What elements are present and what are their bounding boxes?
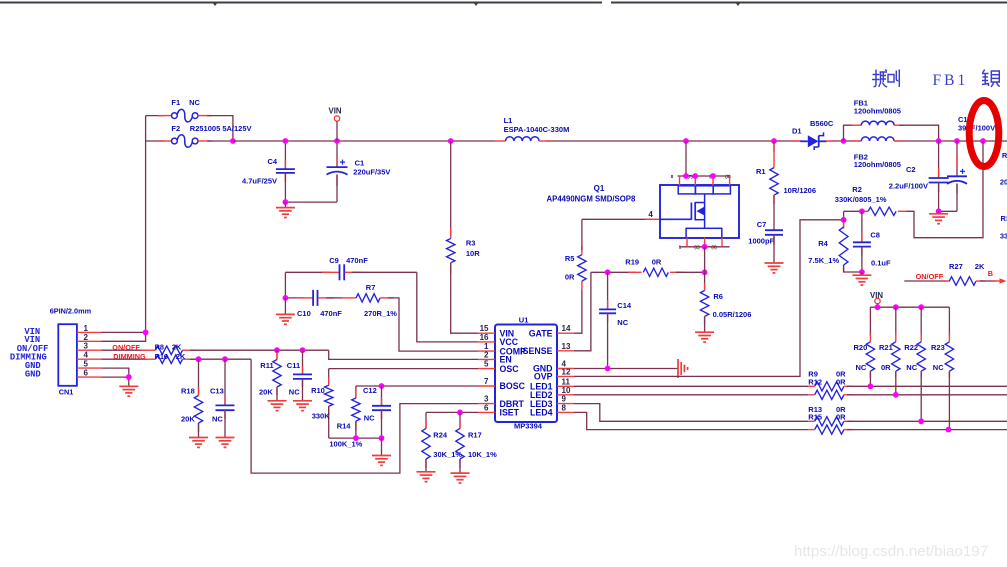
svg-text:100K_1%: 100K_1% [329, 440, 362, 449]
junction C8 top [859, 208, 865, 214]
wire R2 to R4/OVP [843, 211, 845, 220]
svg-text:F1: F1 [171, 98, 180, 107]
title char 2 [888, 70, 899, 88]
U1 left pin stubs [478, 332, 495, 334]
junction DIMMING/R18 [196, 356, 202, 362]
svg-text:6PIN/2.0mm: 6PIN/2.0mm [50, 307, 92, 316]
svg-text:C2: C2 [906, 165, 916, 174]
svg-text:ON/OFF: ON/OFF [916, 272, 944, 281]
capacitor C12 NC [381, 386, 383, 406]
svg-text:R18: R18 [181, 387, 195, 396]
resistor R12 0R [808, 394, 814, 396]
wire OVP net [574, 220, 844, 377]
wire R7 to U1 COMP pin1 [388, 298, 478, 351]
resistor R8 2K [101, 349, 147, 351]
ferrite bead FB2 120ohm/0805 [852, 140, 862, 142]
ground (C13) [216, 437, 235, 439]
resistor R9 0R [808, 385, 814, 387]
svg-text:BOSC: BOSC [500, 381, 526, 391]
svg-text:LED4: LED4 [530, 408, 553, 418]
svg-text:NC: NC [617, 318, 628, 327]
svg-text:NC: NC [856, 363, 867, 372]
svg-text:R14: R14 [337, 421, 352, 430]
svg-text:R19: R19 [625, 258, 639, 267]
resistor R20 NC [869, 307, 871, 335]
ground (output caps) [938, 211, 940, 214]
svg-text:MP3394: MP3394 [514, 422, 543, 431]
svg-text:2: 2 [84, 333, 89, 342]
svg-text:R23: R23 [931, 343, 945, 352]
svg-text:30K_1%: 30K_1% [433, 450, 462, 459]
svg-text:0R: 0R [652, 258, 662, 267]
ground (R17) [451, 472, 470, 474]
svg-text:NC: NC [189, 98, 200, 107]
svg-text:D1: D1 [792, 127, 802, 136]
svg-text:R11: R11 [260, 361, 273, 370]
ground (input filter) [284, 202, 286, 208]
svg-text:3: 3 [484, 395, 489, 404]
svg-text:120ohm/0805: 120ohm/0805 [854, 160, 901, 169]
svg-text:5: 5 [484, 360, 489, 369]
resistor R5 0R [581, 281, 583, 290]
svg-text:220uF/35V: 220uF/35V [353, 168, 390, 177]
transistor Q1 AP4490NGM SMD/SOP8 [660, 185, 739, 238]
junction C10/C9/ground [283, 295, 289, 301]
svg-text:R1: R1 [756, 167, 766, 176]
Q1 drain pad stubs [679, 176, 681, 186]
svg-text:7.5K_1%: 7.5K_1% [808, 256, 839, 265]
svg-text:C12: C12 [363, 386, 377, 395]
svg-text:R20: R20 [854, 343, 868, 352]
wire ON/OFF net to U1 EN [190, 349, 329, 351]
svg-text:NC: NC [906, 363, 917, 372]
svg-text:4: 4 [84, 351, 89, 360]
svg-text:R5: R5 [565, 254, 575, 263]
svg-text:C1: C1 [355, 159, 365, 168]
svg-text:AP4490NGM SMD/SOP8: AP4490NGM SMD/SOP8 [547, 195, 636, 204]
svg-text:NC: NC [933, 363, 944, 372]
red highlight ellipse (C15) [969, 101, 999, 167]
svg-text:L1: L1 [504, 116, 513, 125]
svg-text:0R: 0R [881, 363, 891, 372]
wire ISENSE to R19 [591, 271, 635, 273]
svg-text:R16: R16 [155, 352, 168, 361]
wire U1 GATE to R5 [574, 290, 582, 333]
svg-text:GND: GND [25, 370, 41, 380]
junction ISET/R17 [457, 410, 463, 416]
ground (R6) [695, 331, 714, 333]
svg-text:3: 3 [84, 342, 89, 351]
ground (R24) [417, 471, 436, 473]
svg-text:0R: 0R [836, 413, 846, 422]
resistor R22 NC [920, 307, 922, 335]
fuse F2 R251005 5A/125V [172, 138, 178, 144]
junction C2 bottom [936, 208, 942, 214]
capacitor C9 470nF [285, 271, 330, 273]
svg-text:10K_1%: 10K_1% [468, 450, 497, 459]
svg-text:470nF: 470nF [346, 256, 368, 265]
svg-text:1: 1 [84, 324, 89, 333]
svg-text:R3: R3 [1002, 151, 1007, 160]
junction FB output / C2 [936, 138, 942, 144]
svg-text:ESPA-1040C-330M: ESPA-1040C-330M [504, 125, 570, 134]
svg-text:270R_1%: 270R_1% [364, 309, 397, 318]
svg-text:https://blog.csdn.net/biao197: https://blog.csdn.net/biao197 [794, 543, 988, 560]
svg-text:6: 6 [84, 369, 89, 378]
resistor R2 330K/0805_1% [898, 210, 907, 212]
svg-text:2K: 2K [975, 262, 985, 271]
svg-text:OSC: OSC [500, 364, 520, 374]
svg-text:Q1: Q1 [594, 184, 605, 193]
svg-text:0.1uF: 0.1uF [871, 259, 891, 268]
wire C2/C15 bottom [939, 210, 957, 212]
capacitor C1 220uF/35V polarized [336, 141, 338, 167]
wire BOSC net [356, 385, 478, 387]
wire Q1 drain rail [685, 141, 687, 176]
junction DIMMING/C13 [222, 356, 228, 362]
svg-text:CN1: CN1 [59, 388, 74, 397]
svg-text:6: 6 [484, 403, 489, 412]
diode D1 B560C [791, 140, 802, 142]
svg-text:OVP: OVP [534, 372, 553, 382]
svg-text:C4: C4 [268, 157, 278, 166]
svg-text:330K/0805_1%: 330K/0805_1% [835, 195, 887, 204]
ground (CN1 pins 5/6) [119, 385, 138, 387]
junction CN1 pin1 / VIN riser [143, 330, 149, 336]
svg-text:2K: 2K [172, 343, 182, 352]
svg-text:0R: 0R [836, 377, 846, 386]
svg-text:U1: U1 [519, 316, 529, 325]
resistor R17 10K_1% [459, 412, 461, 428]
svg-text:8: 8 [671, 174, 674, 179]
wire ISET net [426, 411, 478, 413]
junction VIN stem [875, 304, 881, 310]
svg-text:C10: C10 [297, 309, 311, 318]
svg-text:R2: R2 [852, 185, 862, 194]
svg-text:14: 14 [562, 324, 571, 333]
svg-text:VIN: VIN [329, 107, 342, 116]
svg-text:ISET: ISET [500, 408, 520, 418]
junction Q1 source [702, 244, 708, 250]
resistor R7 270R_1% [342, 297, 356, 299]
svg-text:NC: NC [289, 387, 300, 396]
svg-text:C9: C9 [329, 256, 339, 265]
svg-text:R6: R6 [713, 292, 723, 301]
svg-text:R27: R27 [949, 262, 963, 271]
svg-text:B560C: B560C [810, 119, 834, 128]
junction ISENSE/C14 [605, 269, 611, 275]
svg-text:0R: 0R [565, 273, 575, 282]
ferrite bead FB1 120ohm/0805 [844, 125, 854, 141]
svg-text:FB1: FB1 [933, 72, 969, 89]
wire R10/R14/C12 bottom [329, 437, 382, 439]
svg-text:15: 15 [480, 324, 489, 333]
capacitor C8 0.1uF [861, 211, 863, 242]
junction GND/C14 [605, 366, 611, 372]
junction bus / Q1 drain [683, 138, 689, 144]
svg-text:R4: R4 [818, 239, 828, 248]
svg-text:R3: R3 [466, 239, 476, 248]
wire U1 GND row [574, 368, 678, 370]
svg-text:C13: C13 [210, 387, 224, 396]
ground (R10/R14/C12) [381, 438, 383, 455]
inductor L1 ESPA-1040C-330M [495, 140, 506, 142]
resistor R13 0R [808, 420, 814, 422]
title char 3 [982, 70, 1000, 88]
wire bus to F2 [146, 140, 165, 142]
svg-text:R7: R7 [366, 283, 376, 292]
connector CN1 6PIN/2.0mm [58, 324, 77, 386]
wire F2 to main bus [198, 140, 212, 142]
resistor R19 0R [628, 271, 642, 273]
junction R4/C8 bottom [859, 269, 865, 275]
svg-text:R10: R10 [311, 386, 325, 395]
U1 right pin stubs [557, 332, 574, 334]
resistor R27 2K [941, 280, 950, 282]
capacitor C11 NC [302, 350, 304, 374]
resistor R24 30K_1% [425, 412, 427, 428]
svg-text:8: 8 [562, 403, 567, 412]
wire C9 loop left [284, 272, 286, 298]
wire F1 branch right [198, 115, 212, 117]
svg-text:C11: C11 [287, 361, 300, 370]
svg-text:1000pF: 1000pF [748, 237, 774, 246]
wire CN1 pin6 to ground [101, 377, 128, 385]
capacitor C15 39uF/100V polarized [956, 141, 958, 176]
ground (R11) [268, 400, 287, 402]
svg-text:C7: C7 [757, 220, 767, 229]
capacitor C13 NC [224, 359, 226, 405]
svg-text:10R: 10R [466, 249, 480, 258]
svg-text:5: 5 [84, 360, 89, 369]
junction R14 bottom [353, 435, 359, 441]
ground (C11) [293, 400, 312, 402]
junction R21/LED2 [893, 392, 899, 398]
wire CN1 pin5 to ground [101, 368, 128, 377]
junction C12 bottom [379, 435, 385, 441]
junction R23/LED4 [946, 427, 952, 433]
wire OSC net [329, 368, 478, 370]
junction C15 output node [954, 138, 960, 144]
capacitor C7 1000pF [765, 229, 783, 231]
svg-text:120ohm/0805: 120ohm/0805 [854, 107, 901, 116]
junction BOSC/C12 [379, 383, 385, 389]
junctions Q1 drain rail [683, 173, 689, 179]
wire C4/C1 bottom [285, 201, 337, 203]
ground (C7) [765, 262, 784, 264]
resistor R4 7.5K_1% [843, 220, 845, 227]
resistor R18 20K [198, 359, 200, 395]
wire ON/OFF to R27 [904, 280, 947, 282]
wire LED4 row [574, 412, 808, 429]
capacitor C2 2.2uF/100V [938, 141, 940, 178]
svg-text:12: 12 [562, 367, 571, 376]
wire VIN bank bus [870, 306, 949, 308]
junction D1 cathode / FB1 branch [841, 138, 847, 144]
wire LED2 row [574, 394, 808, 396]
svg-text:10: 10 [562, 386, 571, 395]
wire R5 to Q1 gate pin4 [582, 218, 653, 220]
svg-text:NC: NC [364, 413, 375, 422]
svg-text:4: 4 [648, 210, 653, 219]
resistor R14 100K_1% [355, 386, 357, 398]
svg-text:33: 33 [1000, 232, 1007, 241]
svg-text:330K: 330K [312, 412, 331, 421]
svg-text:2K: 2K [176, 352, 186, 361]
resistor R21 0R [895, 307, 897, 335]
resistor R6 0.05R/1206 [704, 272, 706, 290]
capacitor C14 NC [607, 272, 609, 309]
svg-text:2.2uF/100V: 2.2uF/100V [889, 182, 928, 191]
junction C4 top [283, 138, 289, 144]
svg-text:R21: R21 [879, 343, 893, 352]
junction bank/R21 [893, 304, 899, 310]
resistor R23 NC [948, 307, 950, 335]
svg-text:B: B [988, 269, 993, 278]
resistor R1 10R/1206 [773, 141, 775, 152]
junction ON/OFF / R11 [274, 347, 280, 353]
svg-text:C14: C14 [617, 301, 632, 310]
svg-text:NC: NC [212, 415, 223, 424]
wire CN1 pin1/pin2 to fuse input vertical [101, 331, 145, 333]
junction bus / R1 [771, 138, 777, 144]
junction output rail [980, 138, 986, 144]
ground (R4/C8) [861, 272, 863, 275]
wire C9 loop right / U1 VCC [417, 272, 478, 342]
resistor R15 0R [808, 429, 814, 431]
svg-text:9: 9 [562, 395, 567, 404]
svg-text:39uF/100V: 39uF/100V [958, 124, 995, 133]
junction bus / R3 [448, 138, 454, 144]
resistor R3 10R [450, 141, 452, 239]
svg-text:F2: F2 [171, 124, 180, 133]
wire R3 to U1 pin15 [451, 263, 478, 333]
CN1 pin stubs [77, 331, 102, 333]
svg-text:7: 7 [484, 377, 489, 386]
svg-text:R15: R15 [808, 413, 822, 422]
svg-text:R3: R3 [1001, 214, 1007, 223]
wire Q1 source rail [679, 246, 730, 248]
IC U1 MP3394 [495, 325, 557, 423]
junction R20/LED1 [868, 383, 874, 389]
junction ON/OFF / C11 [300, 347, 306, 353]
svg-text:20: 20 [1000, 178, 1007, 187]
resistor R11 20K [276, 350, 278, 359]
svg-text:20K: 20K [181, 415, 195, 424]
svg-text:R8: R8 [155, 343, 164, 352]
wire F1 branch left [146, 115, 165, 117]
wire output rail to R2 [907, 141, 984, 238]
ground (R18) [189, 437, 208, 439]
resistor R10 330K [328, 369, 330, 386]
svg-text:R251005 5A/125V: R251005 5A/125V [190, 124, 252, 133]
svg-text:R22: R22 [904, 343, 918, 352]
svg-text:20K: 20K [259, 387, 273, 396]
svg-text:4.7uF/25V: 4.7uF/25V [242, 177, 277, 186]
wire LED1 row [574, 385, 808, 387]
wire main VIN bus [233, 140, 495, 142]
junction OVP/R4/R2 [841, 217, 847, 223]
signal ground (U1 GND) [677, 359, 679, 378]
svg-text:10R/1206: 10R/1206 [784, 186, 817, 195]
junction pin5/pin6 [126, 374, 132, 380]
wire DIMMING net to DBRT [190, 358, 251, 360]
svg-text:R17: R17 [468, 430, 482, 439]
fuse F1 (NC) [172, 113, 178, 119]
wire LED3 row [574, 404, 808, 422]
capacitor C4 4.7uF/25V [284, 141, 286, 169]
svg-text:0.05R/1206: 0.05R/1206 [713, 310, 752, 319]
svg-text:R12: R12 [808, 377, 822, 386]
junction F1/F2 output [230, 138, 236, 144]
capacitor C10 470nF [285, 297, 304, 299]
title text (chinese chars) [872, 70, 887, 88]
svg-text:R24: R24 [433, 430, 448, 439]
svg-text:GATE: GATE [529, 328, 553, 338]
junction C4 bottom [283, 199, 289, 205]
svg-text:13: 13 [562, 342, 571, 351]
svg-text:470nF: 470nF [320, 309, 342, 318]
svg-text:C8: C8 [870, 231, 880, 240]
svg-text:ISENSE: ISENSE [520, 346, 552, 356]
svg-text:16: 16 [480, 333, 489, 342]
ground (comp network) [284, 298, 286, 315]
junction R19/R6/Q1 source [702, 269, 708, 275]
junction R22/LED3 [918, 418, 924, 424]
junction C1 top [334, 138, 340, 144]
junction bank/R22 [918, 304, 924, 310]
resistor R16 2K [101, 358, 147, 360]
wire ISENSE riser [574, 272, 591, 351]
svg-text:2: 2 [484, 350, 489, 359]
